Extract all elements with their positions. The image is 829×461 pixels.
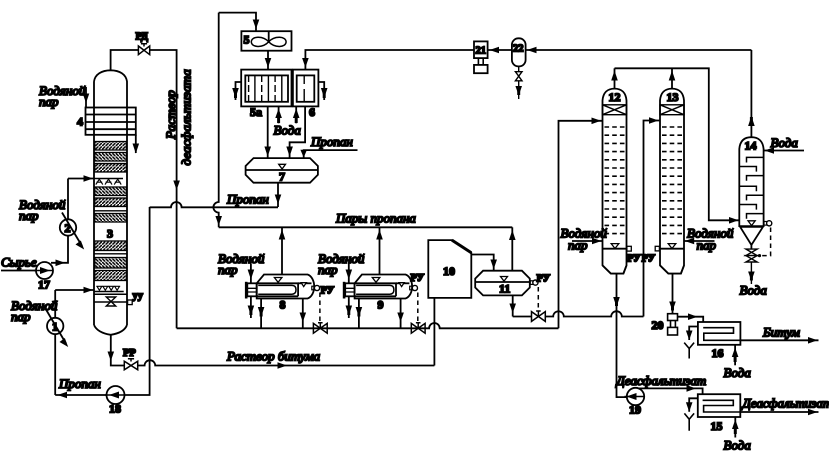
arrow up [611,71,618,81]
svg-text:пар: пар [39,94,59,109]
svg-text:РУ: РУ [321,286,335,297]
svg-text:пар: пар [19,208,39,223]
line 11 to column 13 riser (jumps over riser 12 and line 12-bottoms) [513,311,644,316]
cooler 16 [698,322,741,345]
svg-text:19: 19 [629,403,641,417]
column 14 level mark [748,221,755,226]
arrow down [397,313,404,323]
svg-text:РУ: РУ [537,274,551,285]
svg-text:20: 20 [652,318,664,332]
svg-text:Пары пропана: Пары пропана [335,211,416,226]
column 3 packing band [95,142,127,151]
column 3 shell [94,70,127,335]
arrow up [279,230,286,240]
svg-text:21: 21 [476,46,487,57]
arrow right [687,385,697,392]
dryer 22 [512,38,526,66]
arrow up [748,116,755,126]
riser feed to column 13 [644,121,660,317]
arrow right into 13 [649,117,659,124]
svg-text:Сырье: Сырье [1,255,37,270]
svg-text:пар: пар [11,309,31,324]
nozzle column 14 [764,221,772,226]
evaporator 8 body [257,275,315,299]
riser feed to column 12 [559,121,603,328]
svg-text:7: 7 [279,170,285,184]
svg-text:11: 11 [499,282,510,296]
internal valve УУ [94,297,127,306]
steam coil 4 [86,108,136,135]
nozzle РУ 9 [410,285,418,290]
furnace 10 vapor line to vessel 11 [471,255,493,271]
pipe column top to РД [111,50,138,70]
steam inlet pipe 8 [250,264,252,284]
column 3 packing band [95,164,127,173]
evaporator 9 body [355,275,413,299]
column 14 shell [739,137,763,226]
arrow up [509,230,516,240]
arrow down on vapor pipe near Пары line [215,216,222,226]
line 20 to cooler 16 [678,317,704,328]
steam inlet column 13 [684,240,714,242]
column 3 bottom outlet pipe [111,335,124,366]
arrow down [346,270,353,280]
svg-text:деасфальтизата: деасфальтизата [179,69,194,166]
arrow right [592,238,602,245]
arrow down [490,260,497,270]
channel drain 8 to collection line [258,299,265,329]
column 12 trays (dashed) [605,127,625,234]
feed line Сырье [1,270,36,272]
heater 2 [60,213,84,250]
bitumen solution line with jump over propane riser [138,360,435,365]
water inlet stubs under 5a [275,106,299,123]
valve РР [124,359,137,370]
arrow right into 14 [729,217,739,224]
vapor pipe to condenser 5 (top) [213,13,256,228]
column 3 packing band [95,214,127,223]
arrow left [58,392,68,399]
svg-text:Деасфальтизат: Деасфальтизат [741,396,829,411]
svg-text:4: 4 [77,115,83,129]
column 3 packing band [95,198,127,207]
water drain valve 14 [746,249,757,284]
coil 4 outlet pipe [135,135,137,153]
svg-text:18: 18 [109,402,121,416]
vent valve under 22 [515,66,522,99]
column 12 overhead riser [614,68,616,88]
evaporator 8 bottom outlet [302,299,304,329]
arrow down [669,302,676,312]
arrow left into 22 [527,47,537,54]
column 3 packing band [95,153,127,162]
svg-text:пар: пар [218,262,238,277]
arrow left [685,238,695,245]
svg-text:13: 13 [667,90,679,104]
svg-text:Деасфальтизат: Деасфальтизат [615,373,707,388]
condenser 6 [293,70,319,107]
svg-text:16: 16 [712,346,724,360]
column 3 separator line [94,253,127,255]
control valve 11 [532,311,546,321]
svg-text:Вода: Вода [771,135,799,150]
arrow down [613,297,620,307]
svg-text:5а: 5а [250,105,262,119]
column 14 baffles [739,157,763,218]
channel drain 9 to collection line [356,299,363,329]
pipe 5a to vessel 7 [267,106,269,158]
svg-text:2: 2 [65,221,71,235]
svg-text:Пропан: Пропан [310,134,353,149]
water inlet cooler 16 [732,345,739,366]
column 12 shell [603,89,627,274]
svg-text:РУ: РУ [627,254,641,265]
svg-text:8: 8 [280,298,286,312]
nozzle УУ [128,300,133,305]
arrow right on bitumen line [278,362,288,369]
svg-text:пар: пар [697,238,717,253]
propane line from vessel 7 (with jump over vapor pipe) [150,202,278,207]
arrow up [669,71,676,81]
column 3 packing band [95,271,127,281]
vapor riser from vessel 11 [511,227,513,270]
svg-text:22: 22 [513,44,524,55]
svg-text:Вода: Вода [724,365,752,380]
pump 17 [34,262,53,279]
column 3 packing band [95,241,127,251]
svg-text:Раствор: Раствор [163,90,178,140]
svg-text:пар: пар [318,262,338,277]
control dashed line 8 [319,293,321,323]
channel head 9 [345,283,354,296]
column 13 trays (dashed) [662,127,682,234]
arrow left into 21 [490,47,500,54]
condensate drain 8 (open) [248,296,255,318]
evaporator 9 bottom outlet [400,299,402,329]
arrow right into 12 [592,118,602,125]
drain funnel cooler 15 [684,398,697,430]
recovery line to condenser 6 (through 22 and 21) [305,50,751,70]
nozzle РУ 12 [627,246,631,251]
pump 18 [105,386,125,404]
svg-text:РД: РД [136,32,149,43]
nozzle РУ 8 [312,285,320,290]
column 12 packing X [603,105,627,115]
column 3 packing band [95,187,127,196]
svg-text:РР: РР [123,348,136,359]
svg-text:10: 10 [443,264,455,278]
svg-text:5: 5 [244,33,250,47]
overhead manifold 12/13 to column 14 [615,68,740,220]
column 13 packing X [660,105,684,115]
arrow down [275,195,282,205]
separator 20 [668,314,678,335]
nozzle РУ 11 [530,280,538,285]
arrow right [84,287,94,294]
svg-text:Вода: Вода [274,123,302,138]
svg-text:9: 9 [378,298,384,312]
propane pipe into column bottom (from heater 1) [55,289,94,291]
nozzle РУ 13 [655,246,659,251]
control dashed line 9 [417,293,419,323]
arrow right [808,337,818,344]
column 3 lower distributor [94,286,127,294]
pipe 5 to condenser 5a [267,51,269,70]
steam inlet column 12 [572,240,602,242]
svg-text:14: 14 [745,139,757,153]
tube sheet flange 9 [343,282,346,299]
svg-text:пар: пар [568,238,588,253]
svg-text:6: 6 [309,105,315,119]
tube sheet flange 8 [245,282,248,299]
arrow down [300,313,307,323]
arrow down into 6 [302,58,309,68]
air nozzle left of 5a [232,82,241,100]
arrow right [808,409,818,416]
column 3 packing band [95,258,127,269]
arrow down [108,352,115,362]
arrow down [83,94,90,104]
vessel 7 outlet to propane line [277,183,279,207]
arrow down [300,150,307,158]
svg-text:Пропан: Пропан [226,192,269,207]
svg-text:12: 12 [609,90,621,104]
control valve 8 [313,323,327,333]
deasphaltizate product line [740,411,818,413]
vessel 11 [475,271,530,296]
vessel 11 bottom outlet [512,295,514,316]
vessel 7 [246,158,318,183]
condensate drain 9 (open) [346,296,353,318]
column 14 overhead riser to recovery line [750,50,752,137]
steam inlet pipe 9 [348,264,350,284]
svg-text:РУ: РУ [411,273,425,284]
deasphaltizate line from pump 19 [633,388,703,400]
column 13 overhead riser [671,68,673,88]
control dashed line 14 [758,228,771,256]
svg-text:15: 15 [711,419,723,433]
air nozzle right of 6 [318,82,327,100]
svg-text:3: 3 [107,227,113,241]
arrow right [84,175,94,182]
channel head 8 [247,283,256,296]
furnace 10 feed riser [433,298,435,366]
pipe РД to deasphaltizate solution downcomer [150,50,177,328]
propane makeup line [304,150,358,158]
propane line pump 18 to riser [55,394,106,396]
deasphaltizate solution collection line (jump over furnace drain) [177,323,559,328]
pump 19 [625,388,645,405]
column 12 level mark [603,244,627,249]
arrow down into 5 [253,20,260,30]
feed pipe into column (from heater 2) [68,178,94,180]
condenser 5a [241,70,291,107]
svg-text:РУ: РУ [642,254,656,265]
arrow down [133,144,140,154]
column 3 separator line [94,210,127,212]
drain funnel cooler 16 [684,327,698,359]
svg-text:Пропан: Пропан [58,376,101,391]
control valve 9 [411,323,425,333]
column 12 bottoms line to pump 19 [617,274,628,398]
arrow down [509,304,516,314]
svg-text:Битум: Битум [762,325,800,340]
bitumen product line [740,339,818,341]
arrow down [265,58,272,68]
arrow down on downcomer [173,181,180,191]
pipe 6 to vessel 7 [290,106,306,158]
vapor riser from evaporator 9 [379,227,381,274]
arrow left [765,147,775,154]
column 14 bottom cone [740,227,763,249]
arrow up [376,230,383,240]
feed riser from pump 17 [51,179,68,263]
arrow right on pump 17 discharge [56,260,66,267]
air cooler 5 [241,31,291,51]
vapor riser from evaporator 8 [281,227,283,274]
water inlet cooler 15 [732,417,739,438]
svg-text:Вода: Вода [724,438,752,453]
column 13 bottoms to separator 20 [672,274,674,314]
furnace 10 [428,240,471,298]
cooler 15 [698,394,741,417]
steam pipe into coil 4 [85,87,87,108]
column 3 upper distributor [94,179,123,185]
valve РД [138,44,149,55]
svg-text:Раствор битума: Раствор битума [226,349,321,364]
control dashed line 11 [537,287,539,311]
svg-text:уу: уу [133,291,144,302]
column 13 level mark [660,244,684,249]
svg-text:17: 17 [38,278,50,292]
filter 21 [474,41,488,73]
propane downcomer to pump 18 [125,207,150,395]
svg-text:1: 1 [52,320,58,334]
heater 1 [46,310,68,348]
arrow down [248,270,255,280]
propane vapors line [219,226,513,228]
water inlet column 14 [764,150,804,152]
arrow down [264,147,271,157]
column 13 shell [660,89,684,274]
arrow right [688,313,698,320]
arrow down [286,147,293,157]
svg-text:Вода: Вода [740,283,768,298]
propane riser through heater 1 [54,290,56,395]
